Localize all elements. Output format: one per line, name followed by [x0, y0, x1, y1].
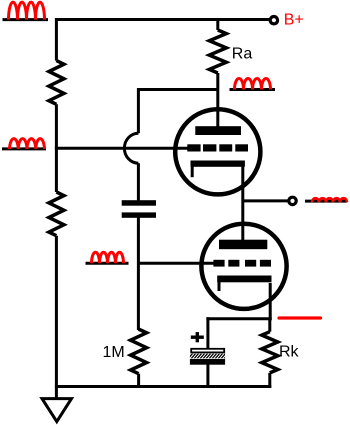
electrolytic capacitor Ck top plate (hollow): [191, 349, 224, 353]
svg-text:Rk: Rk: [279, 344, 300, 361]
U2 cathode left leg: [218, 282, 221, 291]
wire: left rail middle segment: [55, 104, 58, 192]
resistor (upper left divider): [49, 61, 64, 105]
wire: top rail from left rail to B+ terminal: [56, 18, 269, 21]
resistor (lower left divider): [49, 192, 64, 236]
B+ terminal circle: [270, 17, 277, 24]
wire: left rail upper segment: [55, 18, 58, 61]
triode U2 (lower tube) envelope: [201, 224, 286, 309]
wire: bypass capacitor branch from Rk node down: [206, 317, 209, 349]
triode U1 (upper tube) envelope: [175, 109, 260, 194]
U1 cathode bar: [191, 161, 245, 167]
wire: Rk top stub: [268, 317, 271, 332]
wire: middle rail to coupling capacitor: [137, 163, 140, 201]
electrolytic capacitor Ck hatched plate: [188, 353, 229, 359]
U1 plate bar: [195, 126, 241, 135]
wire hop over grid wire (no connection): [124, 133, 138, 163]
U2 grid dashes: [213, 260, 271, 267]
U1 grid dashes: [187, 144, 248, 151]
wire: Rk bottom to bottom rail: [268, 373, 271, 388]
wire: lower grid wire from middle rail to tube U2 grid: [138, 262, 214, 265]
wire: 1M bottom to bottom rail: [137, 374, 140, 388]
wire: output wire from cathode node to output terminal: [243, 199, 288, 202]
wire: capacitor bottom to bottom rail: [206, 364, 209, 388]
wire: horizontal branch from plate node to middle rail: [138, 88, 217, 91]
waveform (medium humps) at upper grid node, mid-left: [2, 139, 46, 149]
resistor Ra: [209, 30, 226, 73]
wire: bottom rail: [55, 385, 271, 388]
electrolytic capacitor Ck bottom plate (solid): [190, 359, 225, 365]
resistor 1M: [131, 329, 147, 374]
wire: left rail lower segment down to ground: [55, 236, 58, 399]
wire: U2 cathode lead down to Rk node: [269, 283, 272, 320]
wire: U1 cathode lead down to U2 plate: [241, 165, 244, 241]
wire: Ra bottom to U1 plate: [216, 73, 219, 128]
wire: middle rail upper segment: [137, 88, 140, 133]
ground symbol: [42, 399, 72, 422]
output terminal circle: [289, 197, 296, 204]
U1 cathode left leg: [191, 166, 194, 177]
waveform (medium humps) at lower grid node: [86, 252, 129, 263]
waveform (medium humps) at plate node, right of Ra: [230, 79, 276, 90]
svg-text:1M: 1M: [103, 344, 125, 361]
wire: Ra top stub to top rail: [216, 18, 219, 30]
waveform (large sine humps) at B+ rail, top-left: [3, 2, 49, 20]
waveform (flat DC level) right of cathode node: [279, 316, 321, 319]
wire: upper grid wire from left rail to tube U1 grid: [55, 147, 188, 150]
wire: Rk top node horizontal to bypass capacitor branch: [206, 317, 271, 320]
waveform (attenuated ripple) at output, right of terminal: [305, 198, 347, 202]
wire: middle rail from capacitor down to 1M resistor: [137, 218, 140, 331]
svg-text:B+: B+: [284, 11, 304, 28]
polarity + sign of electrolytic capacitor: [191, 332, 204, 342]
U2 cathode bar: [217, 276, 271, 283]
svg-text:Ra: Ra: [232, 46, 253, 63]
U2 plate bar: [219, 240, 267, 250]
capacitor (coupling) plates: [122, 200, 156, 218]
resistor Rk: [262, 332, 278, 373]
